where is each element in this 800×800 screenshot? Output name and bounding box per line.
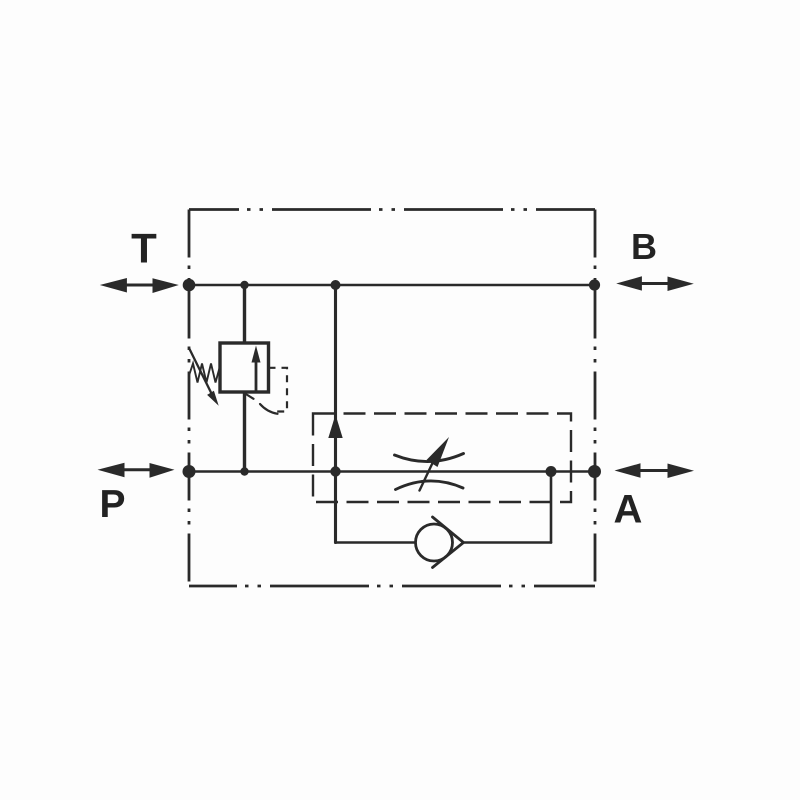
relief valve drain dashed curve <box>245 394 278 414</box>
check valve seat <box>433 517 464 568</box>
node flow-control branch on P-A line <box>330 466 340 476</box>
svg-text:P: P <box>99 483 125 526</box>
svg-text:T: T <box>131 225 157 272</box>
node relief branch on P-A line <box>240 467 248 475</box>
svg-text:A: A <box>614 488 643 532</box>
port B arrow <box>616 276 694 291</box>
enclosure boundary right edge <box>594 210 597 587</box>
port P arrow <box>98 463 175 478</box>
wire relief valve lower branch <box>243 392 246 472</box>
wire bypass right riser <box>550 472 553 543</box>
node relief branch on T-B line <box>240 281 248 289</box>
node B junction <box>589 279 600 290</box>
wire bypass bottom-left <box>336 541 416 544</box>
relief valve spring <box>190 364 220 383</box>
throttle upper arc <box>395 454 464 462</box>
port T arrow <box>100 278 179 293</box>
relief valve pilot dashed line <box>269 368 288 412</box>
enclosure boundary left edge <box>188 210 191 587</box>
throttle lower arc <box>396 481 464 490</box>
enclosure boundary top edge <box>189 208 595 211</box>
node P junction <box>183 465 196 478</box>
wire P-A line <box>189 470 595 473</box>
node bypass on P-A line <box>546 466 557 477</box>
check valve ball <box>416 524 453 561</box>
relief valve V1 internal flow arrow <box>252 346 261 392</box>
wire T-B line <box>189 284 595 287</box>
wire relief valve upper branch <box>243 285 246 343</box>
port A arrow <box>615 463 695 478</box>
wire bypass bottom-right <box>464 541 552 544</box>
flow-control feed arrowhead <box>328 415 342 439</box>
enclosure boundary bottom edge <box>189 585 595 588</box>
svg-text:B: B <box>631 226 657 267</box>
relief valve adjustment arrow <box>190 349 219 406</box>
node T junction <box>183 279 196 292</box>
wire flow-control feed branch <box>334 285 337 543</box>
flow control valve dashed enclosure <box>313 414 571 503</box>
node flow-control branch on T-B line <box>331 280 341 290</box>
node A junction <box>588 465 601 478</box>
relief valve V1 body <box>220 343 269 392</box>
throttle adjustment arrow <box>420 437 450 491</box>
